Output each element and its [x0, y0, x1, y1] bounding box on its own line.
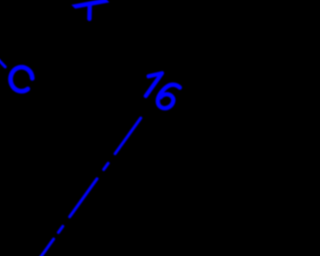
length label 16: digit 6: [158, 85, 180, 109]
wire: dashed segment of length 16: [40, 118, 141, 256]
vertex label C: [11, 67, 33, 91]
length label 16: digit 1: [146, 73, 162, 96]
wire: dash fragment entering at left edge toward C: [0, 60, 5, 67]
vertex label T (cropped at top edge): [71, 0, 109, 19]
